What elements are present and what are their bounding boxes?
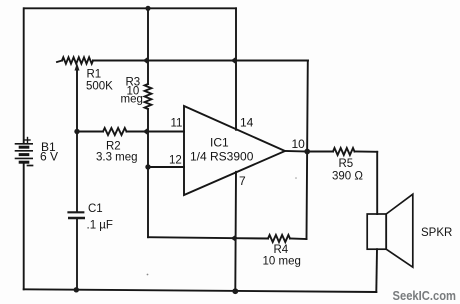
wire left rail upper [23, 8, 25, 142]
wire left rail lower [23, 162, 25, 289]
node pin 12 junction [145, 164, 150, 169]
svg-text:meg: meg [121, 94, 143, 106]
svg-text:6 V: 6 V [40, 150, 58, 164]
svg-text:R1: R1 [87, 69, 102, 81]
svg-text:12: 12 [169, 155, 182, 167]
resistor R4 [236, 237, 268, 239]
svg-text:SeekIC.com: SeekIC.com [393, 288, 457, 303]
svg-text:R4: R4 [274, 244, 289, 256]
svg-text:1/4 RS3900: 1/4 RS3900 [190, 150, 254, 164]
wire speaker bottom lead [375, 249, 378, 292]
junction arrow bias-R3 [143, 57, 149, 65]
wire inverting feed down [147, 167, 149, 237]
svg-text:SPKR: SPKR [421, 227, 452, 239]
op-amp U1 triangle [184, 106, 285, 195]
wire R4 left feed [148, 237, 236, 238]
wire R1 wiper shaft [76, 69, 78, 132]
svg-text:3.3 meg: 3.3 meg [96, 152, 138, 164]
wire pin 11 [148, 131, 184, 133]
wire pin 14 [235, 8, 237, 130]
resistor R5 [307, 151, 333, 153]
speaker SPKR [367, 214, 386, 249]
resistor R1 (pot) [57, 61, 62, 63]
wire pin 7 [234, 172, 237, 291]
node top rail junction [145, 6, 150, 11]
wire R3 branch vertical [147, 8, 149, 84]
svg-text:R5: R5 [339, 158, 354, 170]
svg-text:C1: C1 [88, 203, 103, 215]
speck [295, 177, 297, 179]
wire bottom rail [24, 289, 377, 292]
wire bias line [148, 60, 308, 62]
wire feedback vertical [307, 61, 308, 240]
svg-text:11: 11 [171, 118, 183, 130]
svg-text:IC1: IC1 [210, 136, 229, 150]
wire top rail [24, 7, 236, 9]
node bottom rail mid junction [232, 288, 238, 294]
junction arrow R4-pin7 [231, 234, 237, 242]
node bottom rail left junction [74, 287, 79, 292]
wire output [285, 150, 307, 153]
junction arrow bias-pin14 [231, 57, 237, 65]
node output pin 10 junction [304, 149, 310, 155]
svg-text:390 Ω: 390 Ω [332, 171, 363, 183]
node R2 left junction [74, 129, 79, 134]
capacitor C1 [67, 132, 85, 290]
resistor R3 [145, 84, 152, 109]
junction arrow R2-pin11 [143, 128, 149, 136]
R1 wiper arrow [75, 63, 80, 71]
speck [147, 274, 149, 276]
battery B1 [16, 138, 33, 166]
svg-text:.1 µF: .1 µF [87, 220, 113, 232]
svg-text:10: 10 [292, 137, 306, 151]
svg-text:500K: 500K [86, 81, 113, 93]
wire pin 12 [148, 166, 184, 168]
resistor R2 [77, 131, 103, 133]
svg-text:10 meg: 10 meg [263, 256, 301, 268]
svg-text:14: 14 [240, 116, 254, 130]
svg-text:7: 7 [239, 174, 246, 188]
wire speaker top lead [376, 152, 378, 214]
